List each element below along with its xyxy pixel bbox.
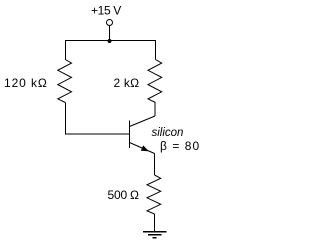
wire bus to R2 <box>155 41 157 60</box>
svg-text:silicon: silicon <box>152 127 184 139</box>
wire bus to R1 <box>64 41 66 60</box>
resistor R2 2 kΩ <box>148 60 162 103</box>
junction dot <box>108 39 112 43</box>
svg-text:2 kΩ: 2 kΩ <box>114 76 140 90</box>
svg-text:120 kΩ: 120 kΩ <box>4 76 48 90</box>
svg-text:500 Ω: 500 Ω <box>108 188 140 202</box>
supply terminal circle <box>107 20 113 26</box>
resistor R3 500 Ω <box>147 175 161 214</box>
wire top bus <box>65 40 156 42</box>
wire R1 to base node <box>65 103 129 135</box>
wire R2 to collector <box>154 103 156 117</box>
wire supply drop <box>109 26 111 42</box>
resistor R1 120 kΩ <box>58 60 72 103</box>
svg-text:β = 80: β = 80 <box>160 139 200 153</box>
wire R3 to ground <box>154 214 156 232</box>
ground <box>143 232 167 238</box>
transistor Q1 <box>130 116 156 154</box>
wire emitter to R3 <box>154 154 156 176</box>
svg-text:+15 V: +15 V <box>91 4 121 18</box>
